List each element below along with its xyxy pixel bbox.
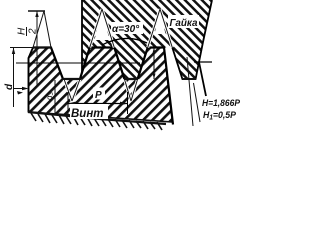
nut right break edge xyxy=(199,0,212,96)
white sliver apex T2 xyxy=(95,9,110,40)
Gaika label xyxy=(168,15,199,28)
svg-text:2: 2 xyxy=(28,28,39,35)
nut tooth G3 outline xyxy=(172,48,199,80)
root thick line G3 xyxy=(182,78,196,80)
white halos under theoretical lines xyxy=(64,9,172,101)
angle arc xyxy=(102,38,147,45)
pitch line xyxy=(16,62,140,64)
left flank of tooth1 thick xyxy=(29,48,34,113)
d3 tick inside screw xyxy=(54,80,56,113)
tooth1 apex triangle xyxy=(33,11,44,48)
hatch stubs below bottom line xyxy=(31,113,162,130)
nut tooth G2 outline xyxy=(114,48,147,80)
screw body (hatched section) xyxy=(29,48,173,123)
H/2 dimension xyxy=(36,11,38,86)
svg-text:H=1,866P: H=1,866P xyxy=(202,98,241,109)
svg-text:Гайка: Гайка xyxy=(170,17,198,29)
theoretical profile thin lines xyxy=(33,9,172,101)
nut left cut edge xyxy=(81,0,83,72)
svg-text:H: H xyxy=(17,27,28,35)
down apex D2 xyxy=(124,79,131,101)
root thick line G1 xyxy=(62,78,81,80)
tooth1 flank extension below root to down-apex D1 xyxy=(64,79,72,101)
crest line extended left xyxy=(10,47,51,49)
root thick line G2 xyxy=(124,78,138,80)
alpha label xyxy=(111,22,143,34)
svg-text:d: d xyxy=(4,83,15,90)
actual thread profile thick line xyxy=(33,48,173,125)
Vint label xyxy=(70,104,108,119)
svg-text:Винт: Винт xyxy=(71,108,104,120)
H1 dimension line on tooth3 xyxy=(153,48,155,80)
white sliver apex T3 xyxy=(155,9,166,34)
P label xyxy=(93,88,105,100)
svg-text:α=30°: α=30° xyxy=(112,24,140,35)
P dimension xyxy=(67,92,69,114)
tooth2 apex triangle xyxy=(90,9,102,48)
right side leader lines xyxy=(187,57,193,126)
svg-text:P: P xyxy=(95,90,102,101)
screw bottom break line xyxy=(28,112,166,124)
small horizontal arrow at y 88 xyxy=(14,88,27,90)
H/2 label rotated xyxy=(17,27,39,36)
apex line y=11 xyxy=(28,10,45,12)
svg-text:H1=0,5P: H1=0,5P xyxy=(203,110,237,122)
nut body (hatched section) xyxy=(82,0,212,79)
d dimension line xyxy=(13,48,15,108)
tooth3 apex triangle xyxy=(148,9,160,48)
